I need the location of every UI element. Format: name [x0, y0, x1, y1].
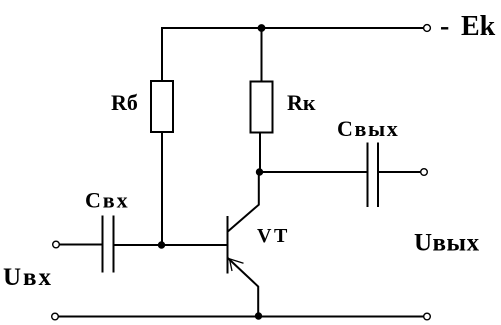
wire Cout to output terminal — [379, 171, 421, 173]
resistor R&#1073; — [151, 81, 173, 132]
node base junction — [158, 242, 164, 248]
svg-text:Uвх: Uвх — [3, 264, 53, 291]
wire input terminal to Cin — [59, 244, 102, 246]
node collector junction — [256, 169, 262, 175]
transistor VT emitter lead — [228, 258, 258, 316]
terminal bottom right open circle — [424, 313, 431, 320]
terminal output open circle — [421, 169, 428, 176]
wire left branch top vertical — [161, 27, 163, 81]
node top junction — [258, 25, 265, 32]
wire bottom rail — [58, 316, 423, 318]
svg-text:Ek: Ek — [461, 11, 496, 42]
wire Rb bottom to base node — [161, 132, 163, 245]
resistor R&#1082; — [251, 82, 273, 133]
svg-text:Rк: Rк — [287, 90, 316, 115]
node emitter bottom junction — [255, 313, 261, 319]
svg-text:Rб: Rб — [111, 90, 138, 115]
capacitor C&#1074;&#1093; plates — [103, 216, 114, 273]
svg-text:Uвых: Uвых — [414, 230, 480, 257]
transistor VT emitter arrow barb upper — [229, 259, 243, 263]
wire collector node to Cout — [260, 171, 367, 173]
svg-text:-: - — [440, 11, 449, 42]
wire base node to transistor base — [114, 244, 227, 246]
capacitor C&#1074;&#1099;&#1093; plates — [368, 143, 379, 208]
terminal -Ek open circle — [424, 25, 431, 32]
svg-text:Свх: Свх — [85, 188, 129, 213]
transistor VT base bar — [227, 216, 229, 274]
wire Rk bottom to collector node — [258, 133, 261, 173]
svg-text:VT: VT — [257, 225, 290, 247]
transistor VT emitter arrow barb lower — [230, 259, 233, 271]
svg-text:Свых: Свых — [337, 116, 399, 141]
transistor VT collector lead — [228, 172, 259, 232]
wire Rk top vertical — [261, 28, 263, 82]
terminal bottom left open circle — [52, 313, 59, 320]
terminal input open circle — [53, 241, 60, 248]
wire top rail — [162, 27, 424, 29]
